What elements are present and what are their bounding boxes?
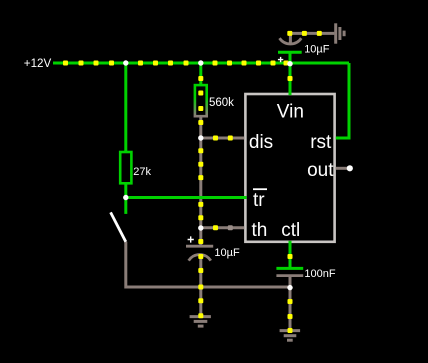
svg-text:dis: dis [249,132,273,153]
svg-text:10µF: 10µF [214,247,240,259]
svg-text:100nF: 100nF [304,268,335,280]
svg-text:560k: 560k [209,97,234,109]
svg-text:tr: tr [253,190,265,211]
svg-text:+12V: +12V [24,57,52,70]
svg-text:27k: 27k [133,166,151,178]
svg-text:10µF: 10µF [304,43,330,55]
svg-text:rst: rst [310,132,332,153]
svg-text:ctl: ctl [281,220,300,241]
svg-text:out: out [307,160,334,181]
svg-text:Vin: Vin [277,102,304,123]
svg-text:th: th [252,220,268,241]
